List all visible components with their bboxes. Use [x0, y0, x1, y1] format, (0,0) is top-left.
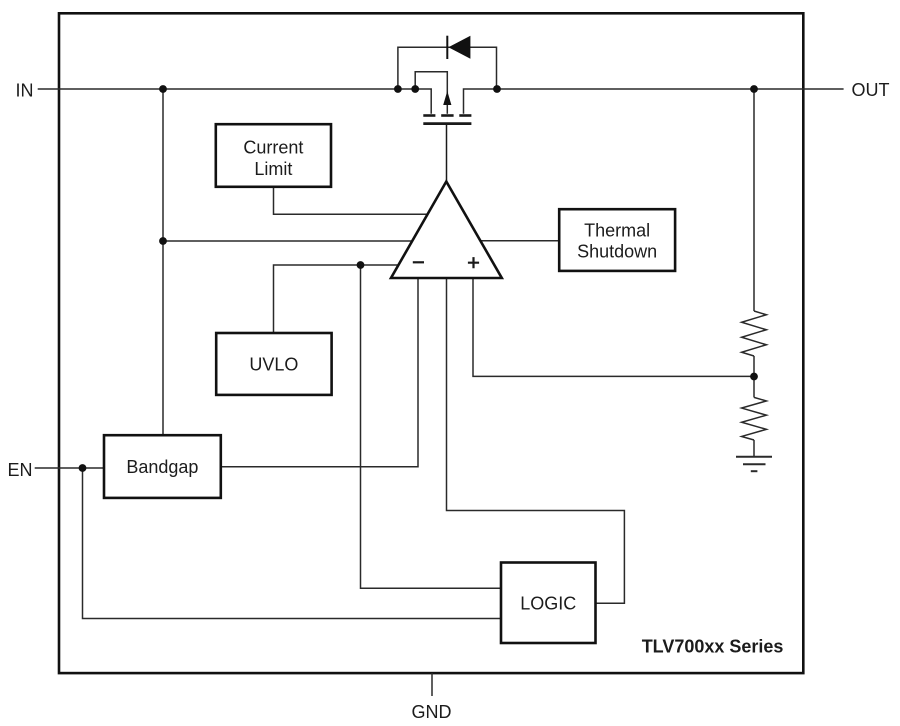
svg-text:EN: EN — [8, 460, 33, 480]
svg-text:OUT: OUT — [852, 80, 890, 100]
svg-text:TLV700xx Series: TLV700xx Series — [642, 636, 784, 656]
svg-text:Limit: Limit — [254, 159, 292, 179]
svg-text:Current: Current — [243, 138, 303, 158]
svg-text:IN: IN — [16, 80, 34, 100]
svg-text:UVLO: UVLO — [249, 354, 298, 374]
svg-text:Thermal: Thermal — [584, 220, 650, 240]
svg-text:LOGIC: LOGIC — [520, 593, 576, 613]
svg-text:GND: GND — [412, 702, 452, 722]
svg-text:Bandgap: Bandgap — [126, 457, 198, 477]
svg-text:Shutdown: Shutdown — [577, 242, 657, 262]
